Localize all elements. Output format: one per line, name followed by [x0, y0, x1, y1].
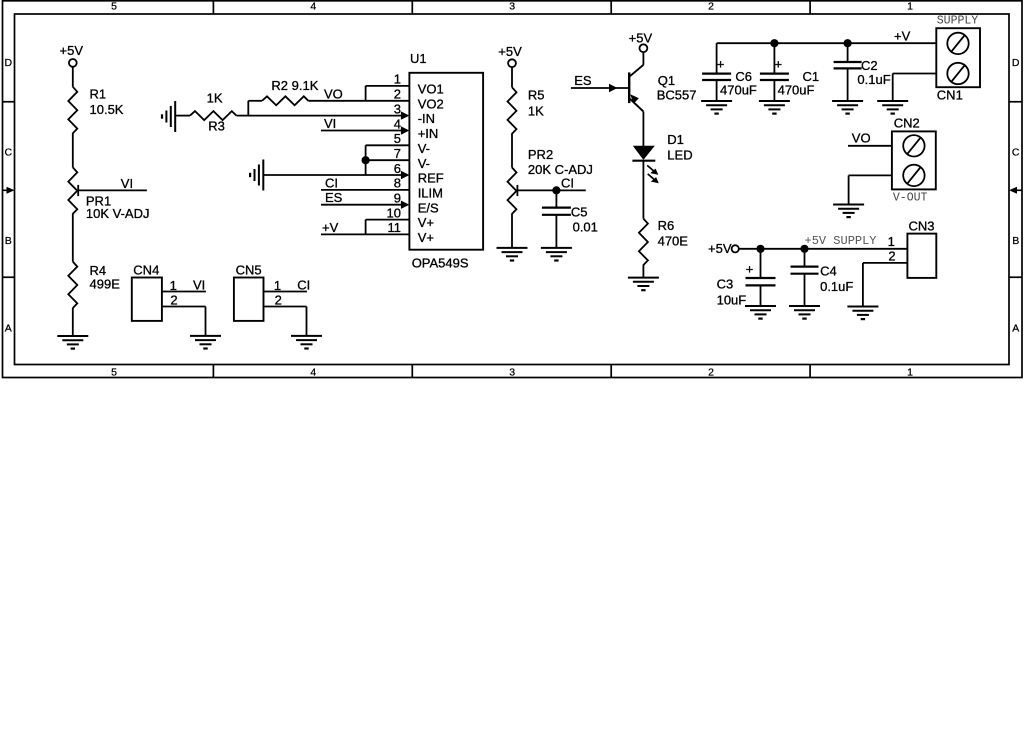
svg-text:2: 2: [888, 248, 895, 263]
svg-text:V+: V+: [418, 230, 434, 245]
wire bracket pin10-pin11: [366, 220, 410, 235]
wire to R2: [248, 100, 262, 102]
ground (CN2): [833, 205, 864, 218]
svg-text:ES: ES: [325, 190, 343, 205]
resistor R4: [68, 262, 120, 308]
svg-text:470E: 470E: [658, 234, 689, 249]
resistor R6: [639, 218, 688, 265]
frame column labels top: [111, 1, 913, 13]
svg-text:+5V: +5V: [708, 241, 732, 256]
svg-text:V-: V-: [418, 141, 430, 156]
wire C3 to ground: [760, 285, 762, 306]
svg-text:5: 5: [111, 367, 117, 379]
node CI wire to U1 pin 8 ILIM: [321, 175, 409, 190]
svg-text:CN1: CN1: [937, 88, 963, 103]
wire +5V to R1: [72, 67, 74, 87]
connector CN1: [936, 14, 980, 102]
wire +5V to Q1: [642, 52, 644, 65]
svg-text:11: 11: [388, 220, 402, 235]
ground (C6): [701, 101, 732, 114]
svg-text:VI: VI: [324, 116, 336, 131]
resistor R5: [508, 87, 545, 133]
node VI (PR1 wiper): [78, 176, 147, 191]
svg-text:ES: ES: [574, 73, 592, 88]
svg-text:4: 4: [310, 367, 316, 379]
svg-text:2: 2: [394, 87, 401, 102]
svg-text:7: 7: [394, 146, 401, 161]
junction dot C2 rail: [844, 40, 851, 47]
wire C4 to ground: [804, 274, 806, 306]
svg-text:U1: U1: [410, 51, 427, 66]
svg-text:C5: C5: [571, 204, 588, 219]
power +5V (R1 top): [60, 43, 84, 67]
wire rail to C2: [847, 43, 849, 62]
diode D1 LED: [632, 132, 692, 183]
ground (C5): [541, 248, 572, 261]
svg-text:VO: VO: [324, 86, 343, 101]
svg-text:2: 2: [275, 292, 282, 307]
svg-text:1: 1: [394, 72, 401, 87]
wire CN2 pin2 to ground: [849, 175, 892, 204]
svg-text:+5V: +5V: [60, 43, 84, 58]
svg-text:4: 4: [310, 1, 316, 13]
svg-text:6: 6: [394, 161, 401, 176]
power +5V (R5 top): [498, 44, 522, 67]
ground (R3 left): [162, 101, 175, 132]
frame column labels bottom: [111, 367, 913, 379]
svg-text:Q1: Q1: [658, 73, 675, 88]
connector CN4: [132, 263, 178, 321]
svg-text:A: A: [5, 323, 12, 335]
svg-text:R2 9.1K: R2 9.1K: [271, 78, 318, 93]
node CI (PR2 wiper): [517, 175, 585, 190]
svg-text:3: 3: [509, 367, 515, 379]
ground (R4): [57, 336, 88, 349]
svg-text:10: 10: [387, 205, 401, 220]
svg-text:VO2: VO2: [418, 96, 444, 111]
svg-text:499E: 499E: [90, 276, 121, 291]
svg-text:V-OUT: V-OUT: [893, 192, 928, 205]
node VO wire to CN2: [848, 130, 892, 146]
svg-text:1K: 1K: [528, 104, 544, 119]
svg-text:10K V-ADJ: 10K V-ADJ: [86, 206, 150, 221]
wire rail to C6: [716, 43, 718, 73]
node ES wire to U1 pin 9 E/S: [321, 190, 409, 209]
ground (CN4): [190, 336, 221, 349]
svg-text:10.5K: 10.5K: [90, 102, 124, 117]
svg-text:OPA549S: OPA549S: [412, 255, 469, 270]
resistor R3: [190, 91, 236, 134]
wire +5V to R5: [511, 67, 513, 87]
wire rail to C1: [773, 43, 775, 73]
svg-text:470uF: 470uF: [720, 82, 757, 97]
junction dot C5: [553, 187, 560, 194]
svg-text:R5: R5: [528, 88, 545, 103]
svg-text:R3: R3: [208, 119, 225, 134]
svg-text:VO: VO: [852, 130, 871, 145]
svg-text:PR2: PR2: [528, 147, 553, 162]
svg-text:CN3: CN3: [909, 219, 935, 234]
svg-text:D1: D1: [667, 132, 684, 147]
junction dot pin 7: [362, 157, 369, 164]
node VI wire to U1 pin 4 (+IN): [321, 116, 409, 135]
svg-text:CN4: CN4: [133, 263, 159, 278]
frame row labels left: [5, 57, 13, 335]
svg-text:D: D: [5, 57, 13, 69]
svg-text:2: 2: [708, 1, 714, 13]
svg-text:-IN: -IN: [418, 111, 435, 126]
wire D1 to R6: [642, 161, 644, 219]
capacitor C1: [760, 57, 819, 98]
svg-text:B: B: [1012, 235, 1019, 247]
ground (R6): [628, 278, 659, 291]
wire to C3: [760, 249, 762, 278]
ground (REF): [250, 160, 263, 191]
connector CN2: [892, 116, 936, 205]
potentiometer PR2: [508, 147, 593, 214]
svg-text:+5V SUPPLY: +5V SUPPLY: [805, 234, 877, 248]
power +5V (supply input): [708, 241, 739, 256]
svg-text:B: B: [5, 235, 12, 247]
resistor R1: [68, 87, 124, 134]
ground (C4): [789, 306, 820, 319]
wire C1 to ground: [773, 80, 775, 101]
svg-text:V-: V-: [418, 156, 430, 171]
svg-text:V+: V+: [418, 215, 434, 230]
wire to C4: [804, 249, 806, 267]
node VI wire CN4 pin1: [162, 277, 206, 292]
svg-text:CN5: CN5: [236, 263, 262, 278]
wire R4 to ground: [72, 308, 74, 336]
ground (PR2): [497, 248, 528, 261]
wire R6 to ground: [642, 265, 644, 278]
svg-text:VI: VI: [121, 176, 133, 191]
svg-text:+5V: +5V: [498, 44, 522, 59]
svg-text:BC557: BC557: [657, 87, 697, 102]
svg-text:2: 2: [170, 292, 177, 307]
op-amp U1 OPA549S: [409, 51, 483, 270]
svg-text:C4: C4: [820, 264, 837, 279]
wire PR2 to ground: [511, 214, 513, 248]
svg-text:R6: R6: [658, 218, 675, 233]
U1 pin numbers: [387, 72, 401, 236]
svg-text:1: 1: [907, 367, 913, 379]
svg-text:8: 8: [394, 176, 401, 191]
svg-text:E/S: E/S: [418, 200, 439, 215]
svg-text:1: 1: [888, 234, 895, 249]
ground (CN3): [847, 307, 878, 320]
svg-text:0.1uF: 0.1uF: [820, 279, 853, 294]
wire bracket pin1-pin2: [366, 86, 410, 101]
svg-text:ILIM: ILIM: [418, 186, 443, 201]
junction dot C1 rail: [771, 40, 778, 47]
wire C6 to ground: [716, 80, 718, 101]
capacitor C6: [702, 57, 757, 98]
transistor Q1: [629, 65, 696, 112]
svg-text:1: 1: [907, 1, 913, 13]
wire R5 to PR2: [511, 133, 513, 167]
svg-text:5: 5: [394, 131, 401, 146]
svg-text:REF: REF: [418, 171, 444, 186]
wire PR1 to R4: [72, 213, 74, 261]
frame right arrow: [1009, 187, 1022, 194]
node ES wire to Q1 base: [571, 73, 629, 92]
wire ground to R3: [175, 115, 190, 117]
svg-text:A: A: [1012, 323, 1019, 335]
svg-text:+IN: +IN: [418, 126, 439, 141]
svg-text:10uF: 10uF: [717, 293, 747, 308]
ground (CN5): [291, 336, 322, 349]
svg-text:+: +: [717, 57, 725, 72]
capacitor C2: [834, 58, 891, 87]
wire CN1 pin2 to ground: [893, 74, 937, 102]
potentiometer PR1: [68, 167, 149, 221]
wire CN5 pin2 to ground: [264, 307, 307, 336]
svg-text:VI: VI: [193, 277, 205, 292]
svg-text:9: 9: [394, 191, 401, 206]
svg-text:C2: C2: [861, 58, 878, 73]
svg-text:+: +: [746, 261, 754, 276]
capacitor C3: [717, 261, 776, 307]
svg-text:0.1uF: 0.1uF: [857, 72, 890, 87]
frame row labels right: [1012, 57, 1020, 335]
wire C2 to ground: [847, 68, 849, 101]
wire CI to C5: [555, 190, 557, 207]
svg-text:D: D: [1012, 57, 1020, 69]
svg-text:+: +: [775, 57, 783, 72]
wire R3 to U1 pin 3 (-IN): [248, 111, 409, 119]
svg-text:5: 5: [111, 1, 117, 13]
svg-text:+V: +V: [894, 28, 911, 43]
wire R2 to U1 pin 2 / node VO: [308, 86, 409, 101]
svg-text:470uF: 470uF: [778, 82, 815, 97]
junction dot C3: [757, 245, 764, 252]
wire CN4 pin2 to ground: [162, 307, 206, 336]
node +V wire to U1 pin 11: [321, 220, 409, 235]
wire Q1 collector to D1: [642, 112, 644, 147]
svg-text:LED: LED: [667, 148, 692, 163]
capacitor C5: [542, 204, 598, 234]
connector CN3: [888, 219, 937, 278]
svg-text:1K: 1K: [207, 91, 223, 106]
connector CN5: [234, 263, 282, 321]
wire ground to U1 pin 6 REF: [263, 171, 409, 179]
wire +5V to CN3 pin1: [739, 234, 908, 249]
node CI wire CN5 pin1: [264, 277, 311, 292]
wire junction up to R2: [247, 101, 249, 116]
svg-text:+5V: +5V: [629, 31, 653, 46]
wire R3 to junction: [236, 115, 249, 117]
svg-text:CI: CI: [561, 175, 574, 190]
svg-text:4: 4: [394, 116, 401, 131]
svg-text:C: C: [5, 147, 13, 159]
border frame: [3, 1, 1023, 378]
svg-text:SUPPLY: SUPPLY: [937, 14, 979, 27]
capacitor C4: [791, 264, 854, 294]
ground (CN1): [877, 101, 908, 114]
svg-text:CI: CI: [297, 277, 310, 292]
resistor R2: [262, 78, 319, 106]
svg-text:R1: R1: [90, 87, 107, 102]
frame left arrow: [3, 187, 15, 194]
wire CN3 pin2 to ground: [863, 263, 908, 307]
svg-text:3: 3: [394, 101, 401, 116]
svg-text:C: C: [1012, 147, 1020, 159]
power +5V (Q1 emitter): [629, 31, 653, 52]
svg-text:+V: +V: [322, 220, 339, 235]
wire +V rail: [717, 28, 937, 43]
ground (C2): [832, 101, 863, 114]
svg-text:CN2: CN2: [894, 116, 920, 131]
ground (C1): [759, 101, 790, 114]
ground (C3): [745, 306, 776, 319]
svg-text:VO1: VO1: [418, 82, 444, 97]
svg-text:CI: CI: [325, 175, 338, 190]
wire C5 to ground: [555, 215, 557, 248]
wire R1 to PR1: [72, 133, 74, 168]
junction dot C4: [801, 245, 808, 252]
svg-text:3: 3: [509, 1, 515, 13]
svg-text:0.01: 0.01: [573, 220, 598, 235]
svg-text:2: 2: [708, 367, 714, 379]
wire bracket pin5-pin7: [366, 145, 410, 175]
svg-text:C3: C3: [717, 277, 734, 292]
